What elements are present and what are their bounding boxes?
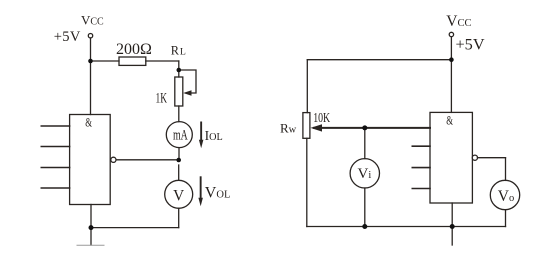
svg-text:mA: mA [173,128,188,144]
svg-text:200Ω: 200Ω [116,41,152,58]
svg-text:&: & [85,116,92,130]
svg-text:&: & [446,114,453,128]
svg-text:+5V: +5V [456,35,485,54]
svg-text:+5V: +5V [54,29,81,45]
svg-text:1K: 1K [156,90,168,106]
svg-text:V: V [173,188,184,205]
svg-text:10K: 10K [313,110,330,125]
svg-text:RL: RL [171,44,187,58]
